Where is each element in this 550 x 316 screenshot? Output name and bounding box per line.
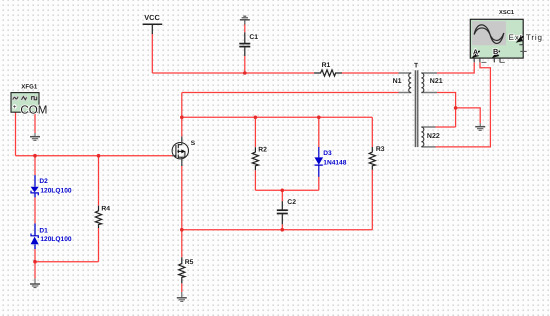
ground below XFG1 xyxy=(30,133,40,140)
wire drain horizontal to N1 bottom xyxy=(182,92,399,94)
wire bottom-left node to R4 xyxy=(35,261,99,263)
svg-text:A: A xyxy=(473,47,479,56)
wire N21 top to scope A+ xyxy=(437,63,474,74)
svg-text:120LQ100: 120LQ100 xyxy=(40,187,71,194)
resistor R4 xyxy=(95,206,101,228)
wire D2 to D1 xyxy=(34,197,36,223)
wire R4 top lead xyxy=(98,156,100,206)
wire center tap to N22 top xyxy=(436,126,456,128)
ground below R5 xyxy=(177,292,187,301)
wire tee net to R2 D3 R3 xyxy=(182,116,372,118)
wire top net VCC to R1 xyxy=(152,72,314,74)
capacitor C2 xyxy=(277,201,288,224)
node D3 tee junction xyxy=(317,116,321,120)
wire R3 bottom lead to bottom net xyxy=(371,170,373,230)
wire R4 bottom lead xyxy=(98,228,100,262)
node drain tee junction xyxy=(180,116,184,120)
node transformer center tap junction xyxy=(454,106,458,110)
svg-text:R3: R3 xyxy=(376,146,385,153)
svg-text:VCC: VCC xyxy=(144,13,160,22)
node C2 top junction xyxy=(281,189,285,193)
wire C2 bottom xyxy=(281,224,283,229)
pin B xyxy=(492,47,505,62)
svg-text:1N4148: 1N4148 xyxy=(323,159,346,166)
svg-text:R5: R5 xyxy=(185,259,194,266)
ground transformer secondary xyxy=(475,123,485,130)
node C1 top-net junction xyxy=(243,71,247,75)
wire R1 to transformer N1 top xyxy=(342,72,399,74)
svg-text:D3: D3 xyxy=(323,150,332,157)
svg-text:N1: N1 xyxy=(393,78,402,85)
wire MOSFET drain vertical xyxy=(181,93,183,137)
power VCC xyxy=(143,24,163,34)
winding N1 xyxy=(399,73,412,93)
wire C1 upper stem xyxy=(244,24,246,32)
winding N22 xyxy=(421,127,435,147)
wire gate net to D2 xyxy=(34,156,36,175)
svg-text:Ext Trig: Ext Trig xyxy=(509,33,543,42)
wire XFG1 plus terminal down xyxy=(15,113,17,156)
wire D3 bottom xyxy=(318,177,320,191)
wire MOSFET source down xyxy=(181,166,183,230)
wire R5 to ground xyxy=(181,283,183,292)
node D1 ground junction xyxy=(33,260,37,264)
wire node R2-C2-D3 horizontal xyxy=(255,189,318,191)
wire C1 lower stem xyxy=(244,56,246,73)
capacitor C1 xyxy=(239,32,250,56)
svg-text:C1: C1 xyxy=(249,34,258,41)
diode D2 xyxy=(31,175,39,197)
resistor R5 xyxy=(179,257,185,283)
function generator XFG1 xyxy=(11,93,47,117)
svg-text:C2: C2 xyxy=(287,199,296,206)
winding N21 xyxy=(421,73,437,93)
wire R2 top lead xyxy=(254,117,256,147)
wire C2 top xyxy=(281,190,283,201)
wire XFG1 minus terminal down xyxy=(34,113,36,134)
resistor R1 xyxy=(314,70,342,76)
wire N22 bottom to scope A- xyxy=(436,63,491,147)
diode D3 xyxy=(315,147,324,177)
svg-text:B: B xyxy=(493,47,498,56)
node gate D2 junction xyxy=(33,154,37,158)
svg-text:XFG1: XFG1 xyxy=(21,84,38,91)
transformer T xyxy=(399,70,438,147)
node source bottom junction xyxy=(180,228,184,232)
pin A xyxy=(472,47,487,62)
resistor R3 xyxy=(369,147,375,170)
wire gate net xyxy=(16,155,173,157)
transistor Q1 MOSFET S xyxy=(172,137,188,167)
ground bottom-left xyxy=(30,279,40,288)
oscilloscope XSC1 xyxy=(470,19,543,62)
resistor R2 xyxy=(252,147,258,170)
wire source to R5 xyxy=(181,230,183,258)
wire R3 top lead xyxy=(371,117,373,147)
wire R2 bottom lead xyxy=(254,170,256,190)
svg-text:D1: D1 xyxy=(39,228,48,235)
svg-text:R4: R4 xyxy=(101,205,110,212)
node C2 bottom junction xyxy=(281,228,285,232)
svg-text:120LQ100: 120LQ100 xyxy=(40,236,71,243)
ground above C1 (inverted) xyxy=(240,16,250,24)
wire D1 to bottom-left node xyxy=(34,249,36,279)
node gate R4 junction xyxy=(97,154,101,158)
svg-text:XSC1: XSC1 xyxy=(499,9,515,16)
svg-text:COM: COM xyxy=(20,103,47,116)
wire D3 top xyxy=(318,117,320,147)
diode D1 xyxy=(31,224,39,250)
svg-text:S: S xyxy=(191,140,196,147)
wire bottom net xyxy=(182,229,372,231)
svg-text:N21: N21 xyxy=(430,78,443,85)
node R2 tee junction xyxy=(254,116,258,120)
svg-text:D2: D2 xyxy=(39,178,48,185)
wire N21 bottom to center tap node xyxy=(437,93,456,128)
svg-text:R1: R1 xyxy=(322,62,331,69)
svg-text:R2: R2 xyxy=(258,146,267,153)
wire center tap to ground xyxy=(456,108,481,124)
svg-text:+: + xyxy=(13,104,17,111)
pin Ext Trig xyxy=(516,36,527,52)
svg-text:N22: N22 xyxy=(427,133,440,140)
wire VCC stem xyxy=(151,34,153,74)
